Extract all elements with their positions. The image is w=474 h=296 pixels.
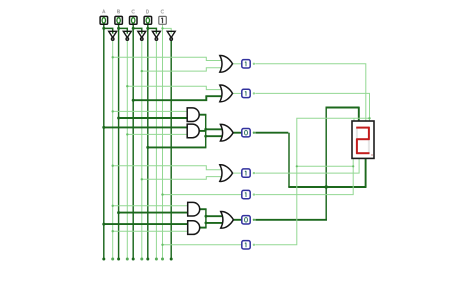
AND gate G4 (187, 124, 199, 138)
junction dots dark (102, 27, 328, 226)
wire p5 row from V9 (163, 194, 242, 196)
wire V8 NOT-D output (155, 40, 157, 259)
wire V3 pin B direct (118, 24, 120, 259)
wire OR2 lower leg (205, 95, 222, 97)
output pin 6 (segment f) (242, 216, 255, 224)
wire AND4 lower feeder from V2 (113, 230, 189, 232)
wire AND3 upper feeder from V2 (113, 205, 189, 207)
input pin D (144, 10, 152, 24)
wire V9 pin Ci direct (162, 24, 164, 259)
segment g (middle) (356, 138, 369, 140)
input pin B (115, 10, 123, 24)
wire segment-g net: pin7 up and over to display top (255, 118, 369, 245)
wire p7 row from V9 (163, 244, 242, 246)
wire OR1 output to pin1 (233, 63, 242, 65)
wire OR3 upper leg (205, 128, 223, 130)
wire segment-f vertical at 326.2 (325, 108, 327, 220)
wire AND1 upper feeder from V2 (113, 110, 188, 112)
output pin 3 (segment c) (242, 129, 255, 137)
input pin A (100, 10, 108, 24)
wire junction vertical at 205.7 (205, 115, 207, 148)
wire branch pin A to NOT1 (104, 28, 113, 33)
wire to V7 at y147.4 (148, 146, 207, 148)
wire AND2 output (199, 130, 206, 132)
AND gate G8 (188, 221, 200, 235)
wire segment-d net: pin4 to display bottom pin2 (255, 158, 359, 173)
wire OR5 upper leg (205, 215, 223, 217)
junction dots light (112, 27, 371, 246)
wire segment-c vertical at 289 (288, 133, 290, 187)
wire display top pin1 stub (353, 118, 355, 121)
wire segment-c stub up to display bottom (365, 158, 367, 188)
wire V2 NOT-A output (112, 40, 114, 259)
wire segment-c net: pin3 to display bottom pin3 horizontal (255, 132, 288, 134)
NOT gate U3 (138, 31, 146, 40)
wire end dots at bottom of bundle (102, 258, 172, 261)
wire branch pin D to NOT4 (148, 28, 157, 33)
wire OR5 lower leg (205, 222, 223, 224)
wire AND3 lower feeder from V3 (119, 212, 189, 214)
segment b (top right) (368, 127, 370, 140)
wire branch pin B to NOT2 (119, 28, 128, 33)
output pin 4 (segment d) (242, 169, 255, 177)
off segment top-left (356, 128, 358, 140)
wire AND2 lower feeder from V4 (127, 133, 188, 135)
wire segment-b net: pin2 to display top pin4 (255, 93, 369, 121)
OR gate G2 (220, 85, 233, 102)
wire segment-f stub down to display top (358, 107, 360, 121)
OR gate G5 (220, 124, 233, 141)
segment e (bottom left) (356, 139, 358, 154)
wire segment-f net: pin6 horizontal (255, 219, 327, 221)
wire junction vertical at 205.9 (205, 209, 207, 227)
segment a (top) (356, 127, 369, 129)
wire branch pin C to NOT3 (133, 28, 142, 33)
wire branch pin Ci to NOT5 (163, 28, 172, 33)
OR gate G9 (221, 211, 234, 228)
off segment bottom-right (368, 139, 370, 153)
wire V5 pin C direct (132, 24, 134, 259)
output pin 1 (segment a) (242, 60, 255, 68)
wire V6 NOT-C output (141, 40, 143, 259)
wire OR5 output to pin6 (233, 219, 241, 221)
NOT gate U5 (167, 31, 175, 40)
wire OR1 lower feeder from V6 (142, 68, 223, 71)
wire segment-e net: pin5 to display bottom pin1 (255, 158, 353, 195)
wire AND1 output (199, 114, 206, 116)
wire V7 pin D direct (147, 24, 149, 259)
NOT gate U4 (152, 31, 160, 40)
AND gate G7 (188, 202, 200, 216)
decimal point (371, 154, 373, 156)
NOT gate U2 (123, 31, 131, 40)
wire AND3 output (200, 208, 207, 210)
wire OR4 output to pin4 (233, 172, 242, 174)
segment d (bottom) (356, 152, 369, 154)
wire AND4 upper feeder from V1 (104, 223, 189, 225)
wire OR3 lower leg (205, 135, 223, 137)
wire branch from pin7 vertical to display bottom pin1 stub (297, 165, 353, 167)
wire AND1 lower feeder from V3 (119, 117, 188, 119)
wire OR1 upper feeder from V2 (113, 57, 223, 60)
wire V1 pin A direct (103, 24, 105, 259)
wire OR2 upper feeder from V4 (127, 86, 222, 89)
input pin Ci (159, 10, 167, 24)
output pin 5 (segment e) (242, 190, 255, 198)
wire OR3 output to pin3 (233, 132, 241, 134)
wire OR2 lower feeder from V5 (133, 96, 206, 100)
output pin 7 (segment g) (242, 241, 255, 249)
wire segment-f top row y107.5 (326, 107, 360, 109)
input pin C (130, 10, 138, 24)
wire AND4 output (200, 227, 207, 229)
7-segment display U10 (352, 121, 374, 158)
AND gate G3 (187, 108, 199, 122)
wire V4 NOT-B output (126, 40, 128, 259)
OR gate G6 (220, 165, 233, 182)
wire OR4 lower feeder from V6 (142, 177, 223, 180)
wire segment-a net: pin1 to display top pin3 (255, 64, 365, 121)
OR gate G1 (220, 55, 233, 72)
wire OR2 output to pin2 (233, 92, 242, 94)
NOT gate U1 (109, 31, 117, 40)
wire V10 NOT-Ci output (170, 40, 172, 259)
wire OR4 upper feeder from V2 (113, 166, 223, 170)
wire AND2 upper feeder from V1 (104, 126, 188, 128)
output pin 2 (segment b) (242, 89, 255, 97)
wire segment-c dark row y187 (288, 186, 366, 188)
